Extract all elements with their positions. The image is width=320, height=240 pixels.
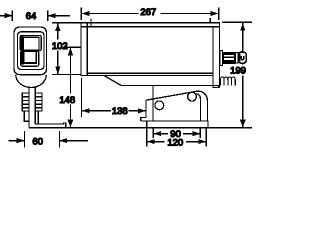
dim 60 right tail [60,140,89,142]
dim 120 line left [147,141,165,143]
dim 90 right ext line [199,128,201,138]
side view box outer [81,23,219,88]
bracket hole right [188,92,197,101]
dim 148 line lower [69,105,71,128]
cable boot coils [220,77,235,85]
dim 120 left ext line [146,122,148,147]
left bracket foot top [35,123,66,128]
svg-text:267: 267 [140,7,156,18]
dim 267 left ext line [80,7,82,20]
mount stud stem left line [28,87,30,128]
box lid seam top [81,26,219,28]
dim 148 line upper [69,48,71,94]
svg-text:199: 199 [230,66,246,77]
front view bezel ring [18,32,45,70]
svg-text:120: 120 [167,137,183,148]
dim 120 right ext line [205,128,207,146]
dim 60 right arrow [60,138,68,143]
cable gland flange [220,51,223,66]
ball joint dome below front view [16,75,47,88]
left bracket plate right edge [37,111,39,124]
dim 102 top arrow [55,23,60,31]
dim 102 line lower [57,51,59,75]
box left seam [86,23,88,76]
right bracket top diagonal [146,91,207,121]
dim 102 line upper [57,23,59,39]
right bracket left edge [141,100,146,121]
dim 199 line mid [242,63,244,65]
dim 138 line right [129,110,146,112]
dim 60 left arrow [17,138,25,143]
dim 102 bottom ext line [52,74,81,76]
dim 90 line left [154,133,169,135]
dim 64 left arrow [5,13,13,18]
right bracket front face [152,85,154,121]
dim 138 line left [82,110,111,112]
dim 267 left arrow [82,11,90,16]
box bottom seam [87,72,213,74]
dim 138 right arrow [138,108,146,113]
threaded block right [35,93,42,111]
dim 64 right tail [48,15,70,17]
dim 90 left ext line [152,128,154,138]
switch rocker upper thick left wall [21,36,24,51]
connector neck ring [236,52,238,63]
dim 60 right ext line [59,131,61,147]
dim 120 line right [186,141,206,143]
dim 120 right arrow [198,139,206,144]
svg-text:60: 60 [32,136,43,147]
dim 60 left ext line [24,131,26,147]
dim 148 top ext line [64,46,81,48]
switch rocker divider bar [21,49,40,51]
left bracket back plate edge [24,111,29,121]
switch rocker lower window [24,51,37,63]
dim 64 left ext line [11,10,13,21]
dim 64 left tail [0,15,12,17]
right bracket bottom plate [141,121,208,128]
switch rocker lower outline [21,51,39,66]
dim 267 right arrow [211,11,219,16]
dim 60 left tail [9,140,25,142]
threaded block left [22,93,29,111]
dim 90 left arrow [154,131,162,136]
dim 102 bottom arrow [55,67,60,75]
dim 199 top arrow [240,23,245,31]
bracket hole left [155,101,164,110]
dim 148 top arrow [68,48,73,56]
switch rocker upper outline [20,35,41,50]
mount stud stem right line [34,87,36,124]
dim 138 ext line [81,78,83,117]
dim 267 line left segment [82,13,139,15]
dim 199 line lower [242,76,244,128]
dim 148 bottom arrow [68,120,74,128]
under-box diagonal [104,76,219,88]
dim 102 top ext line [52,22,81,24]
svg-text:64: 64 [26,11,37,22]
ground line [29,127,252,129]
connector round tip [238,52,246,63]
dim 267 right ext line [218,7,220,20]
dim 138 left arrow [82,108,90,113]
dim 199 top ext line [222,21,252,23]
switch rocker lower thick bottom bar [24,62,37,64]
dim 267 line right segment [161,13,219,15]
dim 120 left arrow [147,139,155,144]
svg-text:138: 138 [112,106,128,117]
dim 199 line upper [242,23,244,51]
lid latch tick right [209,18,211,23]
dim 64 right ext line [47,10,49,21]
cable gland body [222,52,235,64]
lid latch tick left [90,19,92,27]
dim 90 right arrow [193,131,201,136]
dim 199 bottom arrow [240,120,246,128]
switch rocker upper window [24,37,39,50]
right bracket inner fold [196,94,200,121]
dim 64 right arrow [48,13,56,18]
dim 90 line right [183,133,200,135]
switch rocker lower thick left wall [21,52,24,65]
front view body outer shell [14,27,47,75]
svg-text:148: 148 [59,95,75,106]
box right seam [212,27,214,88]
